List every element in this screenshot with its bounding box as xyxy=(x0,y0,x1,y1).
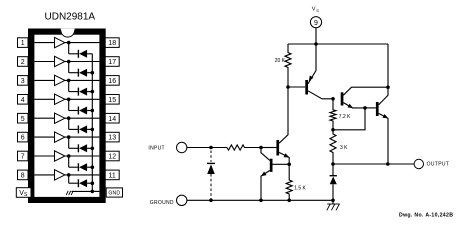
IC title UDN2981A xyxy=(45,12,96,23)
wire: output 17 down to clamp diode 2 xyxy=(68,62,70,73)
node: output 12 junction xyxy=(67,154,71,158)
pin 6 (left) xyxy=(18,132,29,142)
pin 16 (right) xyxy=(105,76,119,86)
terminal: pin 9 supply circle xyxy=(310,17,321,28)
pin 17 (right) xyxy=(105,57,119,67)
svg-text:INPUT: INPUT xyxy=(148,145,165,151)
svg-text:3: 3 xyxy=(21,78,25,85)
resistor 3 K xyxy=(330,130,336,164)
wire: pin 5 to buffer 5 input xyxy=(34,117,54,119)
buffer driver 2 xyxy=(55,56,65,66)
transistor Q3 PNP xyxy=(305,44,333,99)
svg-text:8: 8 xyxy=(21,173,25,180)
wire: bus to GND pin 10 xyxy=(92,190,99,192)
pin 9 VS (left) xyxy=(16,188,31,198)
terminal: GROUND circle xyxy=(177,195,187,205)
node: D1 to ground rail xyxy=(209,199,213,203)
node: diode 3 to ground bus xyxy=(91,90,95,94)
pin 8 (left) xyxy=(18,170,29,180)
svg-text:GND: GND xyxy=(108,191,120,197)
wire: output 13 down to clamp diode 6 xyxy=(68,137,70,148)
svg-text:2: 2 xyxy=(21,59,25,66)
terminal: INPUT circle xyxy=(177,142,187,152)
wire: pin 4 to buffer 4 input xyxy=(34,98,54,100)
resistor R input series xyxy=(227,145,261,150)
wire: buffer 8 output to pin 11 xyxy=(65,174,100,176)
buffer driver 8 xyxy=(55,170,65,180)
node: diode 5 to ground bus xyxy=(91,128,95,132)
svg-text:V: V xyxy=(312,7,316,13)
resistor 7.2 K xyxy=(330,99,336,130)
transistor Q4 NPN xyxy=(341,87,388,108)
svg-text:11: 11 xyxy=(109,173,116,180)
node: diode 6 to ground bus xyxy=(91,147,95,151)
wire: bus to internal ground symbol xyxy=(72,190,93,192)
pin 18 (right) xyxy=(105,38,119,48)
pin 5 (left) xyxy=(18,113,29,123)
transistor Q2 NPN (mirrored) xyxy=(261,148,273,201)
wire: output 18 down to clamp diode 1 xyxy=(68,43,70,54)
wire: node to Q1 base xyxy=(261,147,276,149)
pin 14 (right) xyxy=(105,113,119,123)
svg-text:9: 9 xyxy=(314,20,318,27)
svg-text:20 K: 20 K xyxy=(275,58,286,64)
wire: ground rail xyxy=(187,199,333,201)
pin 3 (left) xyxy=(18,76,29,86)
svg-text:7: 7 xyxy=(21,154,25,161)
svg-text:4: 4 xyxy=(21,97,25,104)
pin 1 (left) xyxy=(18,38,29,48)
node: Q1 emitter / Q2 base / 1.5K top xyxy=(287,163,291,167)
node: Q4 emitter / Q5 base / feedback xyxy=(363,106,367,110)
svg-text:S: S xyxy=(316,8,319,13)
node: D2 to ground rail xyxy=(331,199,335,203)
node: input / D1 anode xyxy=(209,146,213,150)
svg-text:16: 16 xyxy=(108,78,116,85)
wire: node to Q2 base xyxy=(273,163,290,165)
wire: output 12 down to clamp diode 7 xyxy=(68,156,70,167)
wire: output 11 down to clamp diode 8 xyxy=(68,175,70,183)
wire: pin 6 to buffer 6 input xyxy=(34,136,54,138)
clamp diode 3 (cathode left to output) xyxy=(69,88,93,96)
wire: output 16 down to clamp diode 3 xyxy=(68,80,70,91)
buffer driver 1 xyxy=(55,37,65,47)
wire: Q4 emitter node down to 7.2K bottom xyxy=(333,108,365,130)
svg-text:7.2 K: 7.2 K xyxy=(339,114,351,120)
clamp diode 4 (cathode left to output) xyxy=(69,107,93,115)
IC package UDN2981A body xyxy=(28,29,106,204)
svg-text:15: 15 xyxy=(108,97,116,104)
wire: pin 1 to buffer 1 input xyxy=(34,42,54,44)
svg-text:17: 17 xyxy=(108,59,116,66)
svg-text:18: 18 xyxy=(108,40,116,47)
node: Q2 emitter to ground rail xyxy=(259,199,263,203)
node: Q3 collector / Q4 base / 7.2K top xyxy=(331,97,335,101)
node: output 14 junction xyxy=(67,116,71,120)
buffer driver 3 xyxy=(55,75,65,85)
node: diode 7 to ground bus xyxy=(91,165,95,169)
wire: buffer 7 output to pin 12 xyxy=(65,155,100,157)
pin 4 (left) xyxy=(18,95,29,105)
ground (internal, small) xyxy=(66,191,73,195)
transistor Q5 NPN output xyxy=(365,87,388,164)
wire: INPUT to series resistor xyxy=(187,147,227,149)
wire: buffer 1 output to pin 18 xyxy=(65,42,100,44)
node: output 13 junction xyxy=(67,135,71,139)
clamp diode 5 (cathode left to output) xyxy=(69,125,93,133)
node: output 15 junction xyxy=(67,98,71,102)
pin 2 (left) xyxy=(18,57,29,67)
wire: pin 3 to buffer 3 input xyxy=(34,79,54,81)
wire: pin 7 to buffer 7 input xyxy=(34,155,54,157)
wire: output 14 down to clamp diode 5 xyxy=(68,118,70,129)
node: output 17 junction xyxy=(67,60,71,64)
pin 7 (left) xyxy=(18,151,29,161)
ground symbol xyxy=(327,200,340,210)
svg-text:1.5 K: 1.5 K xyxy=(294,186,306,192)
svg-text:6: 6 xyxy=(21,135,25,142)
svg-text:GROUND: GROUND xyxy=(150,200,174,206)
pin 13 (right) xyxy=(105,132,119,142)
svg-text:UDN2981A: UDN2981A xyxy=(45,12,96,23)
transistor Q1 NPN input xyxy=(276,87,289,164)
node: output 18 junction xyxy=(67,41,71,45)
node: 1.5K to ground rail xyxy=(287,199,291,203)
node: 7.2K bottom / 3K top xyxy=(331,128,335,132)
svg-text:12: 12 xyxy=(108,154,116,161)
svg-text:13: 13 xyxy=(108,135,116,142)
node: VS rail junction xyxy=(314,42,318,46)
wire: output line xyxy=(333,163,414,165)
buffer driver 6 xyxy=(55,132,65,142)
wire: buffer 5 output to pin 14 xyxy=(65,117,100,119)
wire: buffer 2 output to pin 17 xyxy=(65,61,100,63)
node: 3K bottom / zener top / output line xyxy=(331,162,335,166)
terminal: OUTPUT circle xyxy=(414,159,423,168)
label VS supply xyxy=(312,7,320,14)
wire: buffer 4 output to pin 15 xyxy=(65,98,100,100)
wire: internal ground bus xyxy=(91,54,93,192)
svg-text:Dwg. No. A-10,242B: Dwg. No. A-10,242B xyxy=(399,212,453,218)
svg-text:OUTPUT: OUTPUT xyxy=(427,162,450,168)
node: output 16 junction xyxy=(67,79,71,83)
buffer driver 7 xyxy=(55,151,65,161)
wire: rail right drop to collectors xyxy=(387,44,389,87)
clamp diode 8 (cathode left to output) xyxy=(69,179,93,187)
node: Q5 emitter to output line xyxy=(386,162,390,166)
wire: node to PNP base xyxy=(288,86,305,88)
resistor 1.5 K xyxy=(286,164,292,200)
pin 15 (right) xyxy=(105,95,119,105)
node: 20K / PNP base / Q1 collector xyxy=(286,85,290,89)
wire: VS rail xyxy=(288,43,388,45)
pin 11 (right) xyxy=(105,170,119,180)
node: diode 2 to ground bus xyxy=(91,71,95,75)
pin 12 (right) xyxy=(105,151,119,161)
diode D2 clamp (to ground) xyxy=(330,164,337,200)
wire: output 15 down to clamp diode 4 xyxy=(68,99,70,110)
buffer driver 4 xyxy=(55,94,65,104)
clamp diode 6 (cathode left to output) xyxy=(69,144,93,152)
svg-text:3 K: 3 K xyxy=(340,145,348,151)
clamp diode 2 (cathode left to output) xyxy=(69,69,93,77)
node: R to Q1 base / Q2 collector xyxy=(259,146,263,150)
clamp diode 1 (cathode left to output) xyxy=(69,50,93,58)
wire: buffer 3 output to pin 16 xyxy=(65,79,100,81)
pin 10 GND (right) xyxy=(106,188,122,197)
clamp diode 7 (cathode left to output) xyxy=(69,163,93,171)
svg-text:1: 1 xyxy=(21,40,25,47)
wire: buffer 6 output to pin 13 xyxy=(65,136,100,138)
wire: VS terminal to rail xyxy=(315,28,317,44)
node: diode 4 to ground bus xyxy=(91,109,95,113)
node: diode 8 to ground bus xyxy=(91,181,95,185)
svg-text:5: 5 xyxy=(21,116,25,123)
svg-text:14: 14 xyxy=(108,116,116,123)
node: rail / Q4 collector / Q5 collector xyxy=(386,85,390,89)
node: output 11 junction xyxy=(67,173,71,177)
node: bus to GND pin xyxy=(91,190,95,194)
buffer driver 5 xyxy=(55,113,65,123)
diode D1 (dashed, input clamp) xyxy=(207,151,215,201)
resistor 20 K xyxy=(285,44,291,87)
wire: pin 2 to buffer 2 input xyxy=(34,61,54,63)
wire: pin 8 to buffer 8 input xyxy=(34,174,54,176)
